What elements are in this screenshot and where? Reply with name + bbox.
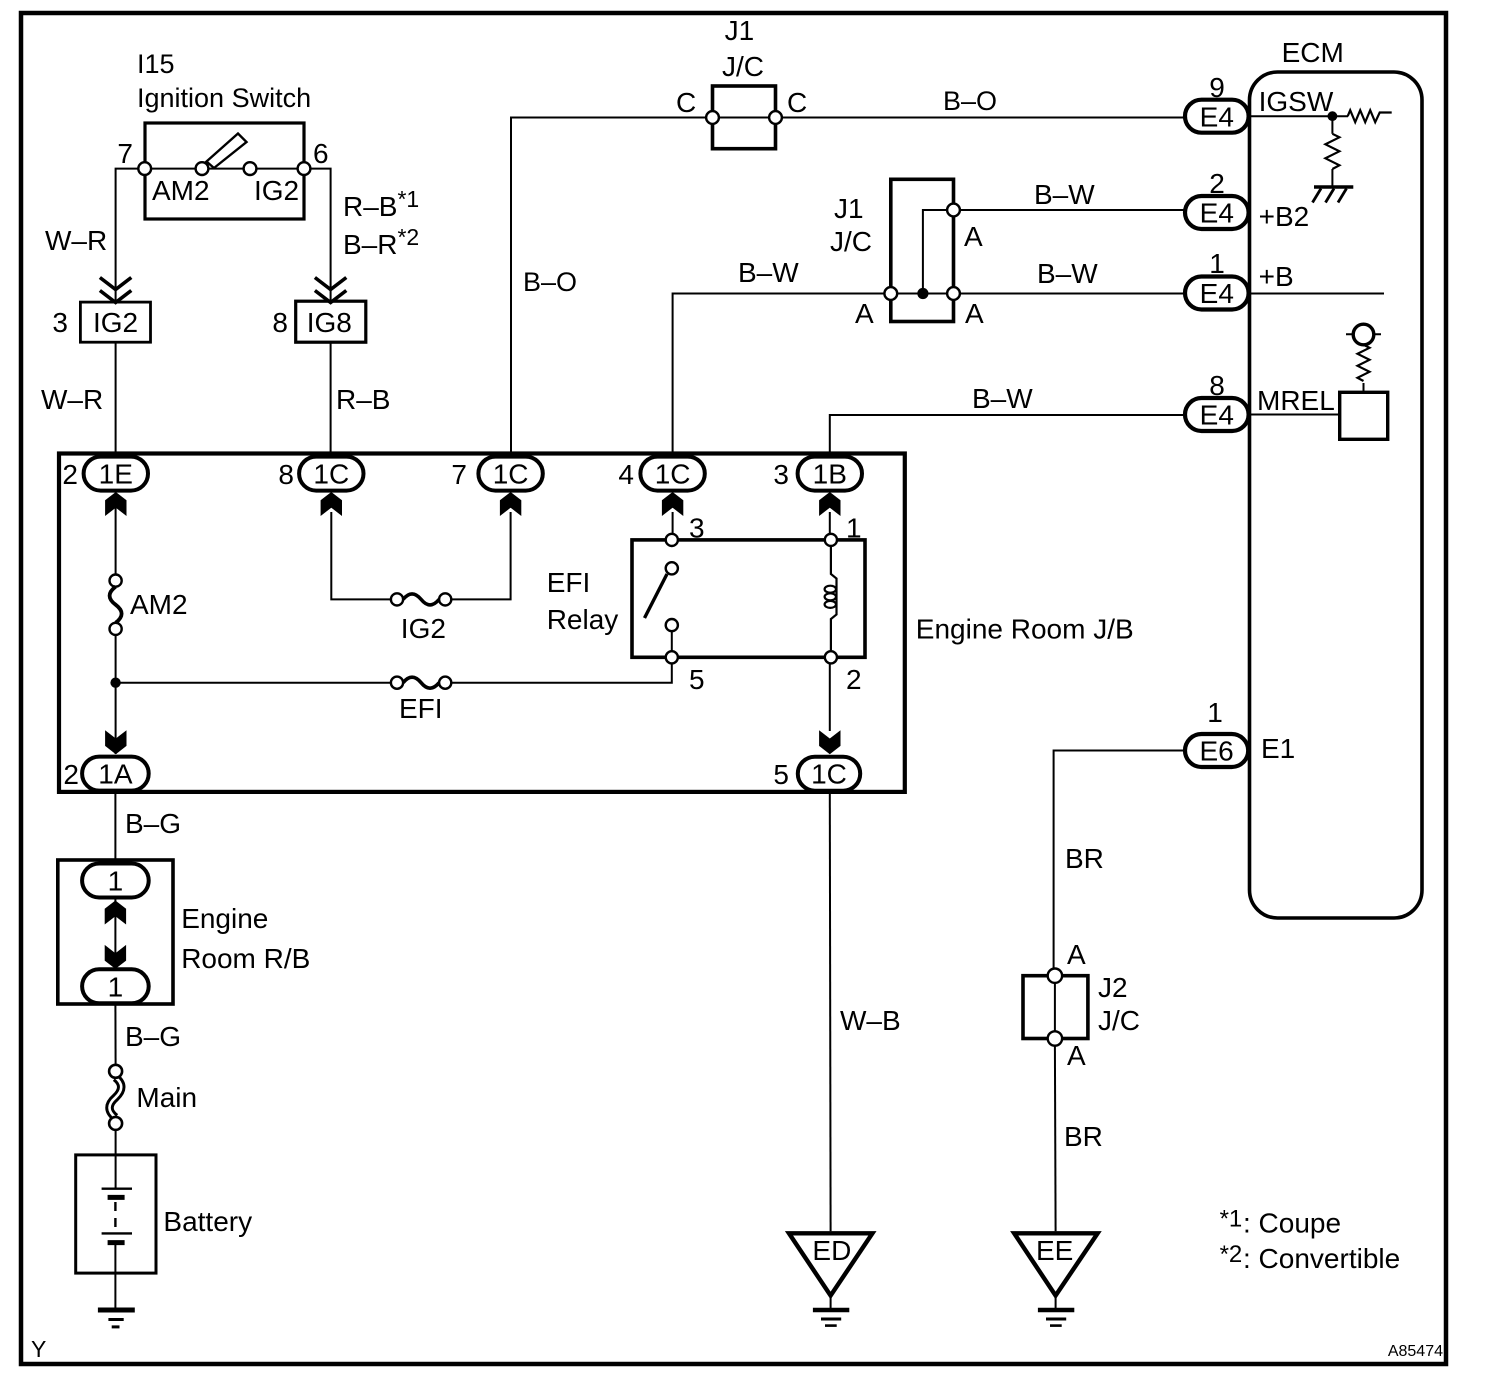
resistor horizontal IGSW: [1348, 110, 1392, 122]
connector 1C pin 8: [278, 457, 363, 491]
wire BR from E6 to J2: [1054, 751, 1184, 976]
junction dot IGSW: [1328, 111, 1338, 121]
wire fuse EFI to relay pin 5: [451, 663, 672, 682]
J1 terminal C left: [706, 111, 719, 124]
svg-text:3: 3: [773, 459, 789, 490]
connector E4 pin 2: [1185, 168, 1249, 229]
svg-text:EFI: EFI: [399, 693, 443, 724]
wire R-B fuse to connector 1C pin 8: [330, 342, 332, 456]
svg-text:W–B: W–B: [840, 1005, 901, 1036]
svg-text:2: 2: [846, 664, 862, 695]
relay coil resistor MREL: [1358, 345, 1370, 381]
relay pin 2 terminal: [825, 651, 837, 663]
up arrow into 1E: [105, 492, 126, 516]
switch terminal pin 7: [138, 162, 151, 175]
wire W-R fuse to connector 1E: [115, 342, 117, 456]
svg-text:B–W: B–W: [972, 383, 1033, 414]
wire Main to battery: [115, 1130, 117, 1189]
wire fuse IG2 to 1C pin 7: [451, 512, 510, 599]
junction dot EFI feed: [110, 678, 120, 688]
svg-text:Engine Room J/B: Engine Room J/B: [916, 614, 1134, 645]
wire 1E to fusible link AM2: [115, 491, 117, 574]
wire W-B to ground ED: [829, 792, 832, 1231]
wire B-G lower: [114, 1004, 116, 1064]
J1 internal bus: [923, 210, 953, 294]
svg-text:Ignition Switch: Ignition Switch: [137, 83, 311, 113]
connector E4 pin 1: [1185, 248, 1249, 310]
wire B-O to E4 pin 9: [776, 117, 1184, 119]
wire B-W J1 to E4 pin 2: [954, 209, 1184, 211]
wire coil to driver box: [1363, 383, 1365, 392]
svg-text:A: A: [1067, 1040, 1086, 1071]
svg-text:*1: *1: [1220, 1206, 1243, 1233]
chevron arrows above fuse IG2: [100, 278, 131, 303]
svg-text:B–O: B–O: [523, 267, 577, 297]
svg-text:5: 5: [773, 759, 789, 790]
svg-text:1C: 1C: [811, 759, 847, 790]
svg-text:C: C: [676, 87, 696, 118]
IGSW internal wire: [1250, 115, 1348, 117]
svg-text:E4: E4: [1200, 198, 1234, 229]
svg-text:B–W: B–W: [738, 257, 799, 288]
svg-text:J1: J1: [834, 193, 864, 224]
MREL driver box: [1340, 392, 1388, 439]
svg-text:BR: BR: [1065, 843, 1104, 874]
svg-text:9: 9: [1209, 72, 1225, 103]
J2 internal wire between A terminals: [1054, 976, 1056, 1039]
ignition switch internal line: [145, 168, 304, 170]
svg-text:3: 3: [689, 513, 705, 544]
svg-text:B–G: B–G: [125, 808, 181, 839]
wire BR lower to ground EE: [1054, 1045, 1057, 1231]
switch terminal pin 6: [298, 162, 311, 175]
wire from pin 6 to IG8 fuse chevrons: [304, 169, 331, 302]
wire relay pin 1 to 1B arrow: [829, 512, 831, 534]
svg-text:J/C: J/C: [830, 226, 872, 257]
wire B-W from 1B pin 3 to E4 pin 8: [830, 415, 1184, 456]
relay pin 3 terminal: [666, 534, 678, 546]
ignition switch I15 labels: [137, 49, 311, 113]
ignition switch box I15: [145, 123, 304, 219]
svg-text:B–G: B–G: [125, 1021, 181, 1052]
wire EFI fuse feed: [116, 682, 391, 684]
svg-text:R–B: R–B: [336, 384, 390, 415]
svg-text:IGSW: IGSW: [1259, 86, 1334, 117]
svg-text:B–W: B–W: [1034, 179, 1095, 210]
svg-text:A: A: [855, 298, 874, 329]
internal ground IGSW: [1313, 187, 1354, 203]
svg-text:Main: Main: [136, 1082, 197, 1113]
svg-text:I15: I15: [137, 49, 175, 79]
svg-text:E4: E4: [1200, 101, 1234, 132]
main relay contact symbol: [1346, 333, 1381, 335]
svg-text:E6: E6: [1199, 736, 1233, 767]
up arrow into 1C pin 8: [321, 492, 342, 516]
J1 internal wire between C terminals: [713, 117, 776, 119]
ED ground bars: [813, 1310, 849, 1326]
wire dot to pull-down resistor: [1331, 116, 1333, 134]
down arrow above R/B connector 1 bottom: [105, 945, 126, 969]
svg-text:IG8: IG8: [307, 307, 352, 338]
ground EE triangle: [1014, 1233, 1097, 1295]
relay pin 1 terminal: [825, 534, 837, 546]
up arrow below R/B connector 1 top: [105, 901, 126, 925]
R/B connector 1 top: [82, 864, 149, 898]
wire resistor to internal ground: [1331, 169, 1333, 187]
relay coil: [825, 546, 837, 651]
connector 1C pin 7: [451, 457, 542, 491]
Engine Room J/B box: [59, 454, 905, 792]
up arrow into 1C pin 4: [662, 492, 683, 516]
svg-text:A: A: [1067, 939, 1086, 970]
svg-text:2: 2: [63, 759, 79, 790]
connector E4 pin 9: [1185, 72, 1249, 133]
fuse box IG8: [296, 301, 366, 342]
svg-text:2: 2: [1209, 168, 1225, 199]
connector E6 pin 1: [1185, 697, 1248, 767]
junction connector J1 (tall) labels: [830, 193, 872, 257]
wire relay pin 3 to 1C pin 4 arrow: [672, 512, 674, 534]
svg-text:1: 1: [1209, 248, 1225, 279]
switch terminal AM2: [196, 162, 209, 175]
svg-text:4: 4: [618, 459, 634, 490]
wire relay pin 2 to 1C pin 5: [829, 663, 831, 731]
connector 1C pin 5: [773, 757, 860, 791]
label EFI Relay: [547, 567, 619, 635]
svg-text:+B2: +B2: [1259, 201, 1310, 232]
junction connector J1 box (top): [713, 86, 776, 149]
svg-text:1C: 1C: [493, 459, 529, 490]
J2 terminal A bottom: [1048, 1031, 1062, 1045]
svg-text:+B: +B: [1259, 261, 1294, 292]
relay switch upper contact: [666, 562, 678, 574]
switch terminal IG2: [244, 162, 257, 175]
svg-text:J2: J2: [1098, 972, 1128, 1003]
svg-text:1B: 1B: [813, 459, 847, 490]
svg-text:2: 2: [62, 459, 78, 490]
svg-text:E4: E4: [1200, 400, 1234, 431]
svg-text:6: 6: [313, 138, 329, 169]
internal wire +B: [1250, 293, 1384, 295]
up arrow into 1C pin 7: [500, 492, 521, 516]
svg-text:Room R/B: Room R/B: [181, 943, 310, 974]
R/B connector 1 bottom: [82, 969, 149, 1003]
internal wire MREL: [1250, 414, 1338, 416]
wire B-O vertical to connector 1C pin 7: [511, 118, 713, 456]
ECM box: [1250, 72, 1423, 918]
svg-text:8: 8: [272, 307, 288, 338]
connector E4 pin 8: [1185, 370, 1249, 431]
relay internal wire to pin 5: [671, 631, 673, 657]
wire B-W J1 to E4 pin 1: [954, 293, 1184, 295]
connector 1C pin 4: [618, 457, 704, 491]
svg-text:3: 3: [52, 307, 68, 338]
junction dot J1: [917, 288, 928, 299]
note *1 Coupe: [1220, 1206, 1341, 1239]
EE ground bars: [1038, 1310, 1074, 1326]
svg-text:E1: E1: [1261, 733, 1295, 764]
wire B-W from 1C pin 4 to J1: [673, 294, 891, 456]
svg-text:J/C: J/C: [722, 51, 764, 82]
svg-text:AM2: AM2: [152, 175, 210, 206]
svg-text:ECM: ECM: [1282, 37, 1344, 68]
J1 terminal C right: [769, 111, 782, 124]
wire B-G upper: [114, 792, 116, 860]
junction connector J1 (top) labels: [722, 15, 764, 82]
svg-text:IG2: IG2: [93, 307, 138, 338]
svg-text:A: A: [965, 298, 984, 329]
svg-text:ED: ED: [812, 1235, 851, 1266]
svg-text:1: 1: [1207, 697, 1223, 728]
battery ground: [98, 1310, 135, 1327]
svg-text:1: 1: [108, 866, 124, 897]
J1 terminal A top-right: [947, 204, 960, 217]
svg-text:8: 8: [1209, 370, 1225, 401]
switch lever: [207, 134, 247, 169]
fusible link Main: [109, 1065, 122, 1130]
svg-text:AM2: AM2: [130, 589, 188, 620]
resistor vertical IGSW pull-down: [1325, 134, 1339, 169]
relay pin 5 terminal: [666, 651, 678, 663]
J2 terminal A top: [1048, 969, 1062, 983]
junction connector J1 box (tall): [891, 179, 954, 321]
svg-text:EE: EE: [1036, 1235, 1073, 1266]
svg-text:1C: 1C: [655, 459, 691, 490]
EE ground stem: [1055, 1296, 1057, 1308]
up arrow into 1B pin 3: [819, 492, 840, 516]
svg-text:C: C: [787, 87, 807, 118]
J1 terminal A bottom-right: [947, 287, 960, 300]
svg-text:5: 5: [689, 664, 705, 695]
fuse EFI: [391, 677, 451, 689]
connector 1E pin 2: [62, 457, 148, 491]
fuse IG2 in J/B: [391, 593, 451, 605]
note *2 Convertible: [1220, 1241, 1401, 1274]
wire AM2 to connector 1A: [115, 635, 117, 754]
svg-text:IG2: IG2: [401, 613, 446, 644]
svg-text:IG2: IG2: [254, 175, 299, 206]
junction connector J2 box: [1023, 976, 1088, 1039]
svg-text:Y: Y: [31, 1336, 46, 1362]
EFI relay box: [632, 540, 865, 657]
junction connector J2 labels: [1098, 972, 1140, 1036]
svg-text:BR: BR: [1064, 1121, 1103, 1152]
wire from pin 7 to IG2 fuse chevrons: [116, 169, 145, 302]
svg-text:1E: 1E: [99, 459, 133, 490]
wire 1C pin 8 to fuse IG2: [331, 512, 391, 599]
svg-text:1: 1: [846, 513, 862, 544]
svg-text:A: A: [964, 221, 983, 252]
svg-text:*2: *2: [1220, 1241, 1243, 1268]
svg-text:7: 7: [451, 459, 467, 490]
R/B internal wire: [114, 898, 116, 968]
svg-text:1C: 1C: [313, 459, 349, 490]
svg-text:1A: 1A: [98, 759, 133, 790]
svg-text:: Convertible: : Convertible: [1243, 1243, 1400, 1274]
chevron arrows above fuse IG8: [315, 278, 346, 303]
svg-text:Battery: Battery: [163, 1206, 252, 1237]
svg-text:E4: E4: [1200, 278, 1234, 309]
ground ED triangle: [789, 1233, 872, 1295]
down arrow into 1C pin 5: [819, 730, 840, 754]
Engine Room R/B box: [58, 860, 173, 1004]
J1 terminal A bottom-left: [884, 287, 897, 300]
fusible link AM2: [110, 575, 122, 636]
J1 internal wire between A terminals: [891, 293, 954, 295]
svg-text:A85474: A85474: [1388, 1343, 1443, 1360]
svg-text:7: 7: [117, 138, 133, 169]
label Engine Room R/B: [181, 903, 310, 974]
battery box: [76, 1155, 156, 1273]
fuse box IG2: [80, 302, 150, 342]
battery cells: [102, 1189, 132, 1243]
svg-text:Engine: Engine: [181, 903, 268, 934]
relay switch blade: [645, 574, 668, 618]
svg-text:1: 1: [108, 971, 124, 1002]
svg-text:W–R: W–R: [41, 384, 103, 415]
svg-text:J/C: J/C: [1098, 1005, 1140, 1036]
ED ground stem: [830, 1296, 832, 1308]
connector 1A pin 2: [63, 757, 148, 791]
svg-text:: Coupe: : Coupe: [1243, 1208, 1341, 1239]
svg-text:EFI: EFI: [547, 567, 591, 598]
svg-text:W–R: W–R: [45, 225, 107, 256]
svg-text:MREL: MREL: [1257, 385, 1335, 416]
svg-text:B–W: B–W: [1037, 258, 1098, 289]
svg-text:B–O: B–O: [943, 86, 997, 116]
wire battery to ground: [114, 1243, 116, 1308]
relay switch lower contact: [666, 619, 678, 631]
down arrow into 1A: [105, 730, 126, 754]
svg-text:Relay: Relay: [547, 604, 619, 635]
svg-text:J1: J1: [725, 15, 755, 46]
svg-text:8: 8: [278, 459, 294, 490]
connector 1B pin 3: [773, 457, 862, 491]
